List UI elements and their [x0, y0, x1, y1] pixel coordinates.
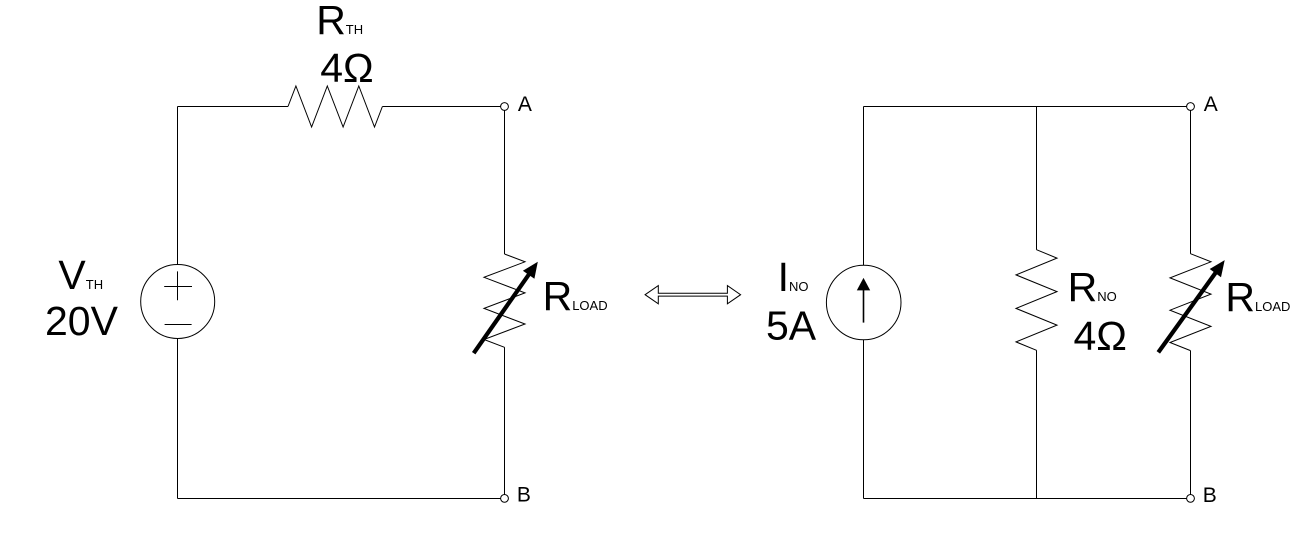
wire: left circuit top rail, right segment: [382, 106, 501, 108]
node B (right circuit): [1187, 495, 1195, 503]
svg-text:5A: 5A: [766, 303, 817, 349]
wire: right circuit left branch upper: [863, 107, 865, 266]
node A (right circuit): [1187, 103, 1195, 111]
svg-text:B: B: [1203, 484, 1217, 507]
wire: right circuit middle branch upper: [1036, 107, 1038, 250]
svg-text:4Ω: 4Ω: [1074, 313, 1127, 359]
svg-text:A: A: [1204, 93, 1218, 116]
wire: right circuit middle branch lower: [1036, 350, 1038, 498]
variable resistor R_LOAD (right circuit): [1158, 254, 1224, 353]
wire: left circuit right branch lower: [504, 347, 506, 494]
wire: right circuit top rail: [864, 106, 1187, 108]
equivalence double arrow: [645, 286, 741, 304]
wire: left circuit bottom rail: [178, 498, 501, 500]
wire: left circuit top rail, left segment: [178, 106, 289, 108]
svg-text:20V: 20V: [45, 298, 119, 344]
wire: right circuit left branch lower: [863, 340, 865, 499]
node A (left circuit): [501, 103, 509, 111]
svg-text:A: A: [518, 93, 532, 116]
wire: left rail lower (source to bottom rail): [177, 338, 179, 498]
wire: right circuit right branch lower: [1190, 351, 1192, 495]
wire: left rail upper (top rail to source): [177, 107, 179, 265]
variable resistor R_LOAD (left circuit): [474, 254, 538, 353]
wire: right circuit bottom rail: [864, 498, 1187, 500]
svg-text:B: B: [517, 484, 531, 507]
wire: left circuit right branch upper: [504, 110, 506, 254]
wire: right circuit right branch upper: [1190, 110, 1192, 253]
svg-text:4Ω: 4Ω: [320, 45, 373, 91]
node B (left circuit): [501, 495, 509, 503]
current source I_NO: [826, 265, 901, 340]
voltage source V_TH: [141, 265, 215, 339]
resistor R_TH zigzag: [288, 86, 382, 127]
resistor R_NO zigzag: [1016, 250, 1057, 351]
